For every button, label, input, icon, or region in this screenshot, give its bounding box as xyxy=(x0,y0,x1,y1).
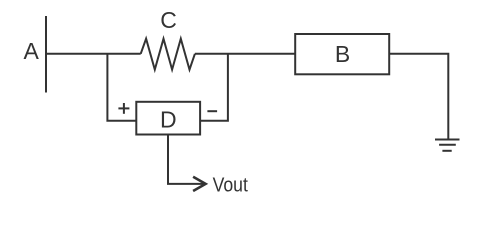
arrow head Vout xyxy=(193,177,206,191)
svg-text:A: A xyxy=(24,38,40,64)
svg-text:Vout: Vout xyxy=(213,174,249,196)
ground xyxy=(435,139,460,141)
svg-text:C: C xyxy=(160,7,177,33)
terminal A (input electrode bar) xyxy=(45,16,47,93)
wire: D output down and right to arrow xyxy=(168,135,204,184)
wire: box B right, over and down to ground xyxy=(389,54,448,140)
wire: left junction down to D plus input xyxy=(107,54,136,121)
svg-text:D: D xyxy=(160,106,177,132)
wire: resistor to box B xyxy=(195,53,295,55)
minus sign at D input xyxy=(207,110,217,112)
plus sign at D input xyxy=(118,107,129,109)
wire: terminal A to resistor left lead xyxy=(46,53,141,55)
svg-text:B: B xyxy=(335,41,350,67)
box D xyxy=(136,102,200,135)
box B xyxy=(295,34,389,74)
resistor C xyxy=(141,39,195,70)
wire: right junction down to D minus input xyxy=(200,54,228,121)
